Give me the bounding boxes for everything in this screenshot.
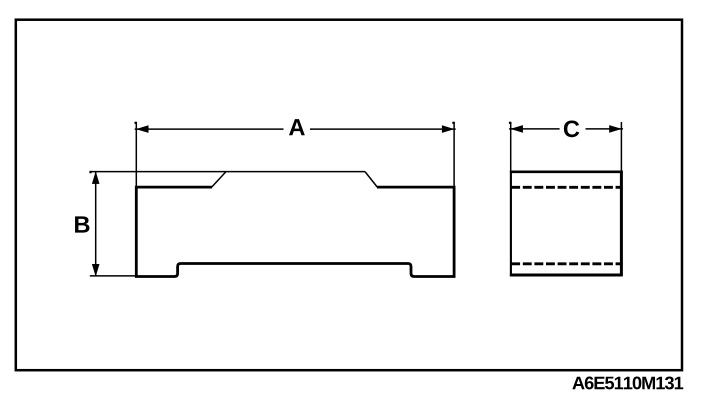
label A (289, 119, 305, 135)
dimension C right arrowhead (610, 126, 621, 133)
dimension C line right segment (586, 128, 624, 130)
dimension C line left segment (509, 128, 559, 130)
dimension A left arrowhead (137, 126, 148, 133)
extension line end tick B top (89, 171, 91, 173)
end view box (510, 171, 512, 277)
extension line end tick A right (452, 122, 454, 124)
dimension A line left segment (135, 128, 284, 130)
extension line end tick A left (135, 122, 137, 124)
dimension C left arrowhead (511, 126, 522, 133)
end view upper hidden dashed line (511, 186, 621, 189)
dimension B top arrowhead (92, 172, 99, 183)
left chamfer (212, 172, 226, 188)
bearing shell top surface thin line (also B top extension line) (90, 171, 365, 173)
figure code A6E5110M131 (572, 377, 683, 390)
end view lower hidden dashed line (511, 262, 621, 265)
dimension A left extension line (135, 122, 137, 186)
right chamfer (365, 172, 377, 188)
label C (564, 120, 579, 137)
dimension A line right segment (310, 128, 456, 130)
dimension A right extension line (453, 122, 455, 186)
dimension B bottom extension line (90, 275, 136, 277)
dimension A right arrowhead (442, 126, 453, 133)
dimension B bottom arrowhead (92, 264, 99, 275)
bearing shell side view: thick outline (136, 187, 454, 276)
dimension C left extension line (510, 122, 512, 171)
extension line end tick C left (509, 122, 511, 124)
label B (75, 216, 89, 232)
dimension B line (95, 171, 97, 276)
dimension C right extension line (620, 122, 622, 171)
